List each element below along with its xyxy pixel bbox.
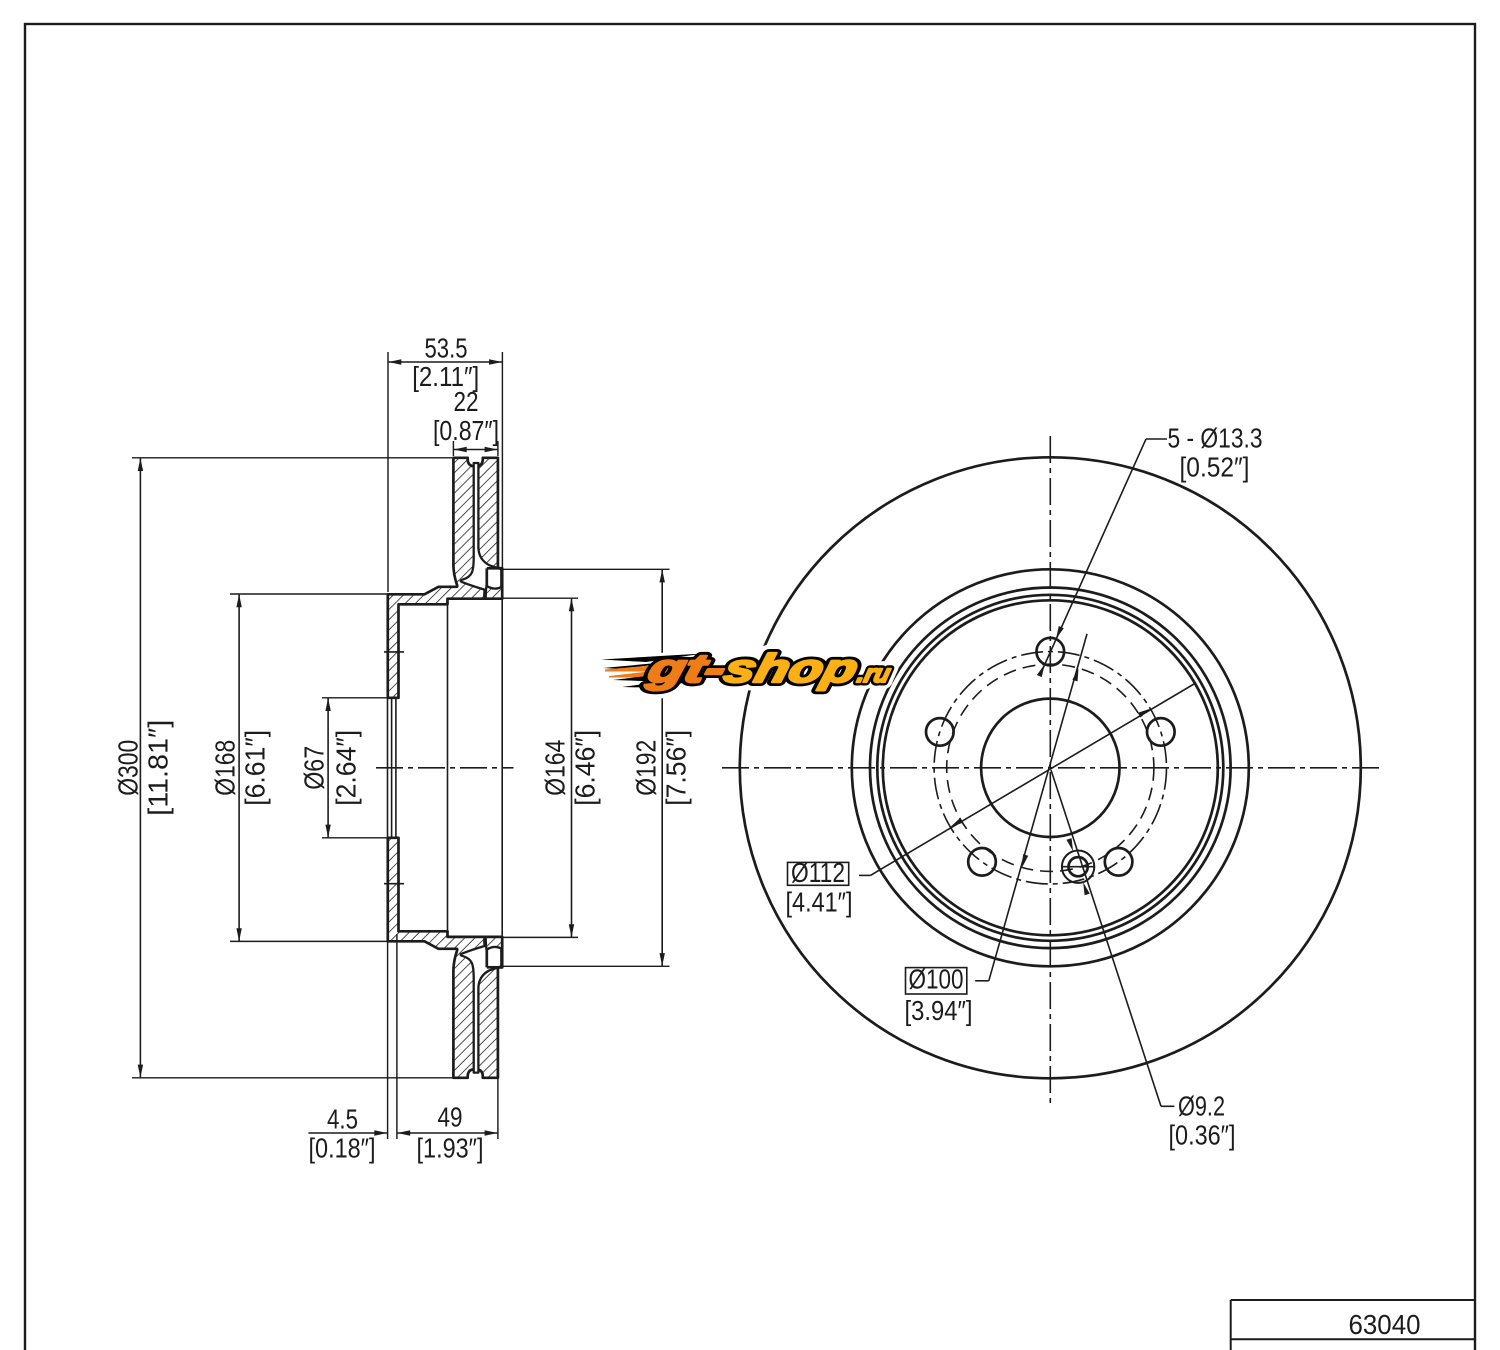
D67 bottom extension line <box>322 837 387 839</box>
D67 dimension line <box>327 698 329 837</box>
D112 diametral dimension line <box>859 684 1194 875</box>
svg-text:22: 22 <box>454 386 479 417</box>
dimension texts rotated <box>112 720 691 816</box>
svg-text:[2.64″]: [2.64″] <box>331 730 362 806</box>
circle D192 vent inner <box>852 569 1249 966</box>
logo text gt-shop.ru black rim <box>642 646 897 691</box>
vent exit edge lower <box>485 950 488 968</box>
bolt hole 306deg <box>1105 848 1133 876</box>
arrowhead lower-left on D112 circle <box>949 818 963 829</box>
label D112 boxed <box>788 862 849 885</box>
svg-text:Ø300: Ø300 <box>112 740 143 796</box>
disc body section lower half (hatched mirror) <box>388 838 502 1078</box>
white halo to mask drawing behind logo <box>642 646 897 691</box>
svg-text:[1.93″]: [1.93″] <box>417 1133 484 1164</box>
svg-text:5 - Ø13.3: 5 - Ø13.3 <box>1168 423 1263 454</box>
bolt hole 18deg <box>1147 718 1175 746</box>
arrowhead upper on D100 circle <box>1072 667 1081 681</box>
horizontal centerline <box>722 767 1381 769</box>
D300 top extension line <box>132 457 452 459</box>
49 right extension line <box>497 1079 499 1139</box>
vent exit edge upper <box>485 568 488 586</box>
4.5 left extension line <box>387 937 389 1139</box>
svg-text:53.5: 53.5 <box>425 333 468 364</box>
pin hole crosshair tick <box>1062 866 1095 868</box>
svg-text:[3.94″]: [3.94″] <box>905 995 973 1026</box>
svg-text:[0.52″]: [0.52″] <box>1180 452 1250 483</box>
circle D164 <box>883 600 1218 935</box>
D192 dimension line <box>661 570 663 966</box>
disc body lower half outline <box>388 838 502 1078</box>
section centerline <box>376 767 514 769</box>
svg-text:Ø112: Ø112 <box>791 857 845 888</box>
title block <box>1231 1300 1475 1350</box>
circle D168 <box>877 595 1223 941</box>
49 dimension line <box>397 1132 497 1134</box>
arrowhead lower on D100 circle <box>1020 854 1029 868</box>
pin circle D100 dashed <box>947 664 1154 871</box>
svg-text:[0.18″]: [0.18″] <box>309 1133 376 1164</box>
bolt hole 234deg <box>968 848 996 876</box>
vent exit edge projection line <box>501 599 503 937</box>
arrowhead pin lower <box>1081 881 1090 895</box>
arrowhead at top bolt hole lower <box>1037 663 1047 677</box>
D300 bottom extension line <box>132 1077 452 1079</box>
arrowhead pin upper <box>1066 838 1075 852</box>
svg-text:Ø164: Ø164 <box>540 740 571 796</box>
svg-text:Ø100: Ø100 <box>909 964 964 995</box>
step edge projection line <box>447 604 449 931</box>
vertical centerline <box>1049 436 1051 1106</box>
svg-text:[6.61″]: [6.61″] <box>239 730 270 806</box>
label D100 boxed <box>906 968 967 994</box>
22 right extension line <box>497 441 499 456</box>
outer disc circle D300 <box>740 457 1361 1078</box>
D67 top extension line <box>322 697 387 699</box>
svg-text:[7.56″]: [7.56″] <box>661 730 692 806</box>
svg-text:Ø168: Ø168 <box>210 740 241 796</box>
svg-text:[11.81″]: [11.81″] <box>143 720 174 816</box>
bolt hole 162deg <box>926 718 954 746</box>
pin hole D9.2 outer ring <box>1062 851 1094 883</box>
disc body section upper half (hatched) <box>388 458 502 698</box>
D100 dimension line through center <box>975 634 1087 981</box>
dimension lines <box>140 362 662 1133</box>
pin hole D9.2 inner <box>1069 857 1088 876</box>
svg-text:49: 49 <box>438 1102 463 1133</box>
svg-text:Ø192: Ø192 <box>631 740 662 796</box>
D164 bottom extension line <box>503 936 578 938</box>
ledge line lower <box>487 966 502 969</box>
logo text colored fat fill <box>642 646 897 691</box>
22 left extension line <box>452 441 454 456</box>
4.5 dimension line <box>308 1132 387 1134</box>
svg-text:4.5: 4.5 <box>327 1104 358 1135</box>
circle r180 <box>870 588 1231 949</box>
D168 dimension line <box>238 594 240 941</box>
53.5 right extension line <box>501 352 503 567</box>
svg-text:[0.36″]: [0.36″] <box>1169 1120 1236 1151</box>
D192 top extension line <box>503 568 670 570</box>
svg-text:[0.87″]: [0.87″] <box>433 415 499 446</box>
vent channel cavity lower (white) <box>461 938 502 1072</box>
svg-text:Ø67: Ø67 <box>299 746 330 790</box>
arrowhead upper-right on D112 circle <box>1138 706 1152 717</box>
ledge line upper <box>487 567 502 570</box>
22 dimension line <box>454 449 498 451</box>
leader 5-D13.3 long line <box>1042 439 1168 672</box>
D9.2 leader through pin hole <box>1051 770 1174 1106</box>
53.5 dimension line <box>388 361 502 363</box>
center hole D67 <box>981 699 1119 837</box>
svg-text:[6.46″]: [6.46″] <box>569 730 600 806</box>
bolt hole center tick lower <box>384 883 404 885</box>
D168 top extension line <box>230 593 387 595</box>
vent channel cavity upper (white) <box>461 463 502 597</box>
53.5 left extension line <box>387 352 389 592</box>
arrowhead at top bolt hole upper <box>1053 626 1063 640</box>
49 left extension line <box>396 934 398 1139</box>
bolt hole top <box>1037 638 1065 666</box>
D164 top extension line <box>503 597 578 599</box>
svg-text:shop: shop <box>720 646 863 691</box>
svg-text:.ru: .ru <box>854 660 893 688</box>
svg-text:[4.41″]: [4.41″] <box>786 887 853 918</box>
svg-text:63040: 63040 <box>1349 1309 1421 1340</box>
svg-text:Ø9.2: Ø9.2 <box>1178 1091 1225 1122</box>
D164 dimension line <box>571 599 573 938</box>
bolt hole center tick upper <box>384 651 404 653</box>
D168 bottom extension line <box>230 940 387 942</box>
speed streaks <box>601 654 714 689</box>
svg-text:gt-: gt- <box>642 646 731 691</box>
D300 dimension line <box>139 458 141 1077</box>
bolt circle D112 dash-dot <box>934 652 1166 884</box>
hub bore silhouette lines <box>388 698 396 838</box>
D192 bottom extension line <box>503 965 670 967</box>
extension lines <box>132 352 670 1139</box>
dimension arrowheads group <box>138 359 665 1135</box>
